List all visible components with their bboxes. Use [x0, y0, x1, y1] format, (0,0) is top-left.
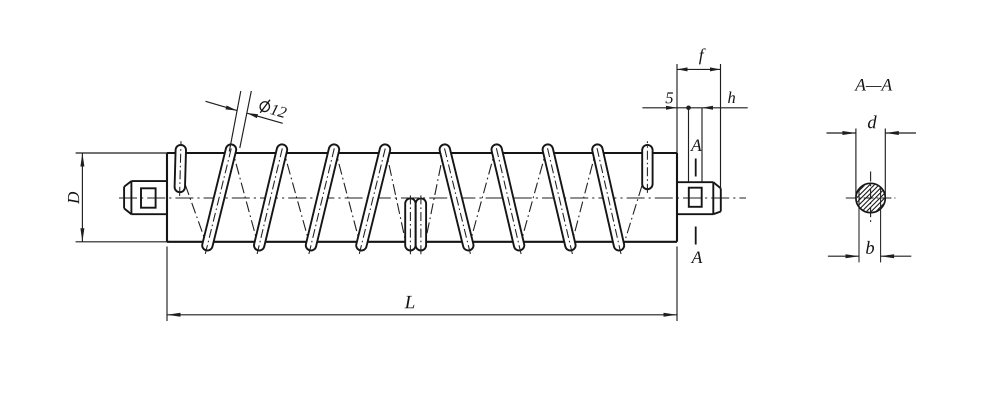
wire back strand right end: [623, 186, 643, 249]
phi12 extension lines: [229, 91, 251, 152]
dimension L extension lines: [167, 247, 677, 322]
label phi12: [258, 98, 288, 120]
section mark A upper: [690, 139, 702, 176]
phi12 dimension line with arrows: [206, 101, 283, 123]
label h: [728, 92, 735, 103]
dimension f extension lines: [677, 64, 721, 188]
coil front strand 2: [257, 141, 284, 254]
dimension D extension lines: [76, 153, 167, 242]
label d: [868, 115, 877, 128]
dimension L line with arrows: [167, 313, 677, 317]
coil front strand 3: [309, 141, 336, 254]
coil front strand 6: [495, 141, 521, 254]
coil front strand 5: [443, 141, 471, 254]
label b: [866, 241, 874, 254]
dimension b line with arrows: [828, 254, 911, 258]
label D: [68, 192, 79, 204]
main axis centerline: [119, 197, 746, 199]
section mark A lower: [691, 227, 703, 264]
dimension d line with arrows: [827, 131, 917, 135]
section title A-A: [854, 79, 892, 91]
section circle centerlines: [846, 172, 896, 223]
right shaft journal: [677, 182, 721, 214]
section circle (wire cross-section): [856, 183, 885, 212]
coil front strand 1: [205, 141, 233, 254]
label L: [404, 296, 414, 308]
label f: [699, 48, 706, 64]
wire back strand 4-mid: [385, 146, 408, 251]
coil front strand 4: [359, 141, 387, 254]
right wire end stub: [641, 141, 653, 193]
wire back strand 1-2: [231, 145, 259, 249]
wire back strand 7-8: [570, 145, 597, 249]
wire back strand 5-6: [468, 145, 496, 249]
middle wire end left: [404, 195, 416, 255]
wire back strand left end: [185, 185, 208, 250]
left wire end stub: [180, 141, 181, 196]
left shaft journal: [124, 181, 167, 214]
wire back strand mid-5: [424, 146, 445, 251]
dimension d extension lines: [856, 129, 885, 197]
coil front strand 7: [546, 141, 573, 254]
dimension 5 and h line: [642, 106, 747, 183]
spring body outline (drum): [167, 153, 677, 242]
middle wire end right: [415, 195, 427, 255]
left shaft square hole: [141, 188, 156, 207]
coil front strand 8: [595, 141, 621, 254]
wire back strand 3-4: [334, 145, 361, 249]
wire back strand 2-3: [282, 145, 311, 249]
section flats / b extension lines: [859, 187, 881, 262]
wire back strand 6-7: [519, 145, 548, 249]
label 5: [666, 92, 674, 103]
dimension D line with arrows: [80, 153, 84, 242]
right shaft square hole: [689, 188, 702, 207]
dimension f line with arrows: [677, 67, 721, 71]
